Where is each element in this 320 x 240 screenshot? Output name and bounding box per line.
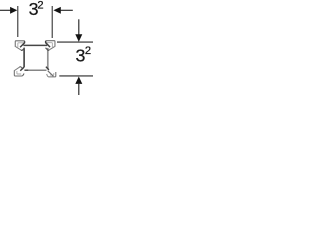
- bottom wall darker left segment: [24, 69, 28, 71]
- corner flag bottom-right: [46, 67, 56, 77]
- profile body: left wall: [23, 48, 25, 67]
- extension line left (x=17.8): [17, 6, 19, 37]
- up arrow with tail: [75, 77, 82, 96]
- svg-text:2: 2: [37, 0, 43, 11]
- vertical dim: bottom extension line (y=75.9): [59, 75, 93, 77]
- dimension line top-left with arrow: [0, 7, 17, 14]
- corner flag top-left: [15, 41, 25, 51]
- corner flag top-right: [45, 41, 55, 51]
- profile body: right wall: [47, 48, 49, 70]
- corner flag bottom-left: [14, 67, 24, 76]
- profile body: bottom wall: [25, 69, 46, 71]
- extension line right (x=52.2): [51, 6, 53, 38]
- dimension arrow left-pointing + tail: [53, 7, 72, 14]
- down arrow with tail: [75, 19, 82, 41]
- profile body: top wall: [23, 44, 47, 46]
- vertical dim: top extension line (y=42.1): [57, 41, 93, 43]
- svg-text:2: 2: [85, 45, 91, 57]
